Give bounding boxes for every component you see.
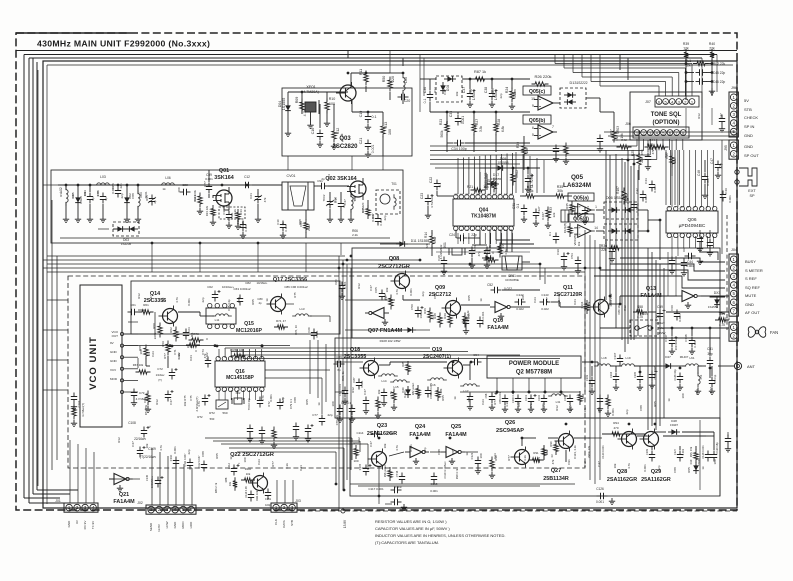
wire vgroup2 c [594,240,596,484]
svg-text:100: 100 [479,453,483,458]
svg-text:R45: R45 [565,203,569,209]
svg-text:0.001: 0.001 [686,264,694,268]
svg-text:C23: C23 [481,399,485,405]
svg-text:C24: C24 [449,233,455,237]
svg-text:GND: GND [110,359,118,363]
crystal XF01 [305,102,316,112]
trimmer RT2 560 [216,400,228,409]
svg-text:22p: 22p [187,449,191,454]
wire [43,184,51,186]
svg-text:AF OUT: AF OUT [745,310,760,315]
svg-text:D10: D10 [485,248,491,252]
capacitor C100 cluster under PM 3 [515,395,521,406]
svg-text:D13: D13 [570,81,577,85]
svg-text:R49: R49 [443,313,447,319]
wire [69,496,71,503]
inductor L17 [460,384,480,386]
resistor R49 3k [448,313,452,328]
svg-text:R75: R75 [183,395,187,401]
svg-text:R65: R65 [241,221,245,227]
wire [600,111,614,113]
IC Q06 uPD4094BC [666,211,718,233]
wire j02 up [151,448,153,505]
svg-text:9V: 9V [75,520,79,524]
wire [431,230,433,234]
svg-text:C47: C47 [443,89,447,95]
svg-text:0.001: 0.001 [678,314,682,322]
svg-text:L31: L31 [556,400,561,404]
diode D02 [124,194,130,206]
resistor R23 560k [445,121,449,136]
svg-text:10k: 10k [385,287,389,292]
resistor R48 9k [438,313,442,328]
svg-text:C143: C143 [541,293,549,297]
svg-text:3SK164: 3SK164 [214,175,233,181]
svg-text:100: 100 [521,295,525,300]
capacitor C24 22p [457,235,468,241]
trimmer la [255,193,261,204]
svg-text:560: 560 [222,411,227,415]
svg-text:VR02: VR02 [515,170,519,178]
wire [721,140,723,254]
wire vgroup2 a [584,230,586,392]
connector J95 [729,140,738,159]
svg-text:220: 220 [391,76,395,82]
capacitor cluster right2 [707,239,713,250]
svg-text:1k: 1k [667,398,671,402]
wire Q16 bot pins dn [218,390,220,400]
svg-text:C109: C109 [645,448,649,455]
svg-text:C91: C91 [567,459,571,465]
svg-text:C80: C80 [334,279,338,285]
wire [124,333,155,335]
svg-text:Q23: Q23 [377,423,388,429]
diode pair D06b [604,224,638,240]
connector J07 pins [655,96,699,107]
svg-text:C88: C88 [131,193,135,199]
ceramic filter CF01 CFW455E [502,256,522,270]
svg-text:100: 100 [467,397,471,402]
IC Q16 MC145158P [215,361,265,387]
wire [58,184,250,186]
wire [652,431,666,433]
wire bundle mid 1 [47,255,345,257]
svg-text:1S997: 1S997 [697,458,701,466]
wire [287,156,289,170]
wire pm pins [496,378,498,392]
wire [600,327,630,329]
svg-text:0.001: 0.001 [491,88,495,96]
box PLL dashed [68,276,585,468]
svg-text:R42: R42 [621,138,627,142]
svg-text:0.001: 0.001 [693,340,697,347]
wire hrow6 [430,451,441,453]
capacitor C10 0.001 [280,221,286,232]
svg-text:33: 33 [550,454,554,458]
capacitor cluster bottomright [725,435,731,446]
op-amp Q05(d) [568,214,594,222]
svg-text:Q09: Q09 [435,285,445,291]
svg-text:R65: R65 [251,299,255,305]
svg-text:22p: 22p [423,447,427,452]
connector J03 [271,503,297,512]
svg-text:3.3k: 3.3k [557,299,561,305]
resistor R08 2.2k [304,219,308,233]
capacitor C99 cluster under PM 2 [502,395,508,406]
crystal X01 4.7/25WHz [452,248,462,255]
resistor R14 220 [430,233,434,248]
wire [389,51,391,74]
svg-text:100: 100 [331,401,335,406]
wire [402,295,404,300]
svg-text:10k: 10k [228,481,232,486]
svg-text:3.3k: 3.3k [615,135,619,141]
svg-text:21: 21 [460,193,464,197]
resistor R30 10k [522,143,526,158]
svg-text:47k: 47k [529,403,533,408]
capacitor C115 [363,465,369,476]
svg-text:R87 1k: R87 1k [474,70,486,74]
capacitor C23 4.7/25wv [425,195,431,206]
svg-text:CV01: CV01 [287,174,296,178]
filter CV01 [282,182,314,210]
svg-text:R60: R60 [152,323,156,329]
transistor Q22 [249,473,268,494]
svg-text:0.001: 0.001 [409,444,413,452]
svg-text:POWER MODULE: POWER MODULE [509,361,559,367]
svg-text:0.1: 0.1 [516,204,520,209]
resistor R69 [166,341,170,356]
svg-text:R12: R12 [697,113,701,119]
wire vertical from regulator to Q04 [479,172,481,190]
capacitor C105 [637,373,643,384]
svg-text:FA1A4M: FA1A4M [113,499,135,505]
svg-text:LA6324M: LA6324M [563,182,591,189]
transistor Q11 2SC2712GR [590,297,609,318]
wire bus bottom 4 [37,489,78,491]
svg-text:C40: C40 [604,241,608,247]
svg-text:4.7/25wv: 4.7/25wv [430,196,434,209]
wire [390,72,403,74]
capacitor C19 0.1 [365,113,371,124]
resistor R46 82k [428,308,432,323]
svg-text:430MHz MAIN UNIT F2992000 (No.: 430MHz MAIN UNIT F2992000 (No.3xxx) [37,39,210,49]
svg-text:C76: C76 [261,395,265,401]
svg-text:47k: 47k [587,301,591,306]
svg-text:J96: J96 [731,86,737,90]
svg-text:C123, 3.3k: C123, 3.3k [573,445,577,459]
svg-text:0.001: 0.001 [681,448,685,455]
resistor R24 4.7k [510,88,514,103]
box middle section [352,248,720,338]
svg-text:XF01: XF01 [306,84,316,89]
wire hrow5 [237,451,336,453]
svg-text:C82: C82 [245,281,251,285]
svg-text:9: 9 [532,104,534,108]
wire [335,361,363,363]
wire vgroup2 b [589,235,591,480]
diode D01 HS08 [75,194,81,206]
svg-text:Q27: Q27 [551,468,562,474]
capacitor C103b [589,377,595,388]
capacitor C104 [613,373,619,384]
svg-text:0.01: 0.01 [299,465,303,471]
capacitor C42 0.001 [640,191,646,202]
svg-text:4.7k: 4.7k [627,463,631,469]
wire hrow1 [205,437,352,439]
svg-text:0.1: 0.1 [372,115,377,119]
wire fan vertical 7 [655,260,657,430]
svg-text:Q22 2SC2712GR: Q22 2SC2712GR [230,452,274,458]
svg-text:TONE SQL: TONE SQL [651,112,682,118]
svg-text:J01: J01 [55,499,61,503]
wire fan vertical 1 [605,150,607,300]
svg-text:C23: C23 [193,195,197,201]
wire [286,303,294,305]
svg-text:C48: C48 [697,170,701,176]
capacitor C47 22p [715,161,721,172]
svg-text:10k: 10k [613,463,617,468]
transistor Q26 [511,447,530,468]
svg-text:C88: C88 [201,451,205,457]
wire bus left 2 [28,58,30,503]
svg-text:22p: 22p [625,409,629,414]
svg-text:22p: 22p [120,193,124,198]
svg-text:0.022: 0.022 [516,307,524,311]
capacitor C33 4.7/25wv [525,175,531,186]
wire cluster [539,264,541,280]
svg-text:C88: C88 [639,405,643,411]
svg-text:C112: C112 [227,462,231,469]
svg-text:R71 15k: R71 15k [144,404,148,415]
svg-text:R77: R77 [203,181,207,187]
capacitor C64 0.001 [183,329,189,340]
svg-text:100: 100 [177,187,181,192]
svg-text:10k: 10k [183,401,187,406]
svg-text:Q13: Q13 [646,286,656,292]
wire J07 pin wires [658,86,660,96]
svg-text:RESISTOR VALUES ARE IN Ω, 1/10: RESISTOR VALUES ARE IN Ω, 1/10W ) [375,519,447,524]
svg-text:10k: 10k [83,191,87,196]
svg-text:C20: C20 [404,99,411,103]
op-amp Q05(c) [523,86,551,95]
capacitor cluster B1 [131,389,137,400]
svg-text:R33 22k: R33 22k [205,205,209,216]
connector J02 [146,505,196,514]
wire [711,88,713,96]
svg-text:0.01: 0.01 [637,153,641,159]
capacitor C05 [379,290,385,301]
svg-text:R11: R11 [359,69,363,75]
svg-text:25A1162GR: 25A1162GR [641,477,671,483]
svg-text:0.022: 0.022 [541,307,549,311]
diode D08 1S2222 [440,82,446,94]
resistor R87 1k [472,77,488,81]
svg-text:C91: C91 [665,153,669,159]
svg-text:12: 12 [509,193,513,197]
svg-text:MUTE: MUTE [745,293,757,298]
svg-text:22p: 22p [421,291,425,296]
svg-text:R93: R93 [581,393,585,398]
wire bus bottom 3 [33,493,70,495]
resistor R32 9.3k [523,194,538,198]
svg-text:1000/10wv: 1000/10wv [151,475,154,488]
wire [709,328,711,356]
wire [460,391,580,393]
capacitor C12 [242,182,253,188]
svg-text:C117 0.001: C117 0.001 [368,487,384,491]
svg-text:14: 14 [498,193,502,197]
wire long RF bottom [60,237,390,239]
capacitor C61 [128,309,139,315]
svg-text:R74, 47: R74, 47 [276,319,286,323]
svg-text:4.7k: 4.7k [469,89,473,95]
svg-text:Q17 2SC3356: Q17 2SC3356 [273,277,307,283]
capacitor C92 [425,387,431,398]
svg-text:C80 18: C80 18 [617,305,621,314]
capacitor cluster vco1 [71,393,77,404]
svg-text:C119 4.7/25wv: C119 4.7/25wv [443,461,447,479]
diode D07 [444,76,456,82]
capacitor cluster right of Q16 [337,405,343,416]
svg-text:0.001: 0.001 [644,195,648,203]
resistor R56 8.2k [463,313,467,328]
svg-text:C110: C110 [169,454,173,461]
svg-text:R23: R23 [439,119,443,125]
svg-text:0.01: 0.01 [249,193,253,199]
resistor R93 cluster [578,391,582,405]
wire [685,96,687,100]
wire stub top qo3 [347,51,349,59]
box power row [335,338,720,418]
svg-text:3.3k: 3.3k [233,209,237,215]
svg-text:L14: L14 [381,379,386,383]
content frame inner line [47,64,733,66]
inverter Q24 FA1A4M [405,447,429,458]
svg-text:INDUCTOR VALUES ARE IN HENRIES: INDUCTOR VALUES ARE IN HENRIES, UNLESS O… [375,533,505,538]
svg-text:M1407: M1407 [680,355,689,359]
capacitor C102 cluster under PM 5 [541,395,547,406]
svg-text:2SC945AP: 2SC945AP [496,428,524,434]
svg-text:L06: L06 [165,176,171,180]
wire [496,239,530,241]
wire [65,184,68,187]
svg-text:2.2k: 2.2k [352,233,358,237]
svg-text:Q05(a): Q05(a) [573,196,589,202]
resistor R36 cluster [670,153,674,168]
inductor L11 [212,314,232,316]
svg-text:Vs: Vs [710,54,714,58]
svg-text:1/2W: 1/2W [658,331,665,335]
svg-text:0.001: 0.001 [269,394,273,402]
inverter Q07 FN1A4M [365,308,389,319]
capacitor C48 0.001 [702,173,708,184]
resistor R44 10k [645,145,660,149]
svg-text:Q24: Q24 [415,424,426,430]
svg-text:0.001: 0.001 [360,380,364,387]
svg-text:FA1A4M: FA1A4M [409,432,431,438]
diode D47 M1407 [662,363,674,369]
svg-text:+: + [238,461,240,465]
svg-text:20: 20 [465,193,469,197]
svg-text:T01: T01 [391,182,397,186]
wire fan vertical 2 [615,154,617,328]
svg-text:FA1A4M: FA1A4M [487,325,509,331]
wire [647,140,649,152]
svg-text:VCV: VCV [110,368,116,372]
svg-text:C127: C127 [673,448,677,455]
wire Q06 top pins [671,150,673,207]
svg-text:R21: R21 [467,185,473,189]
svg-text:0.001: 0.001 [403,390,407,398]
wire left inner [46,65,48,504]
trimmer TC01 [149,195,155,206]
svg-text:R65: R65 [145,195,149,201]
IC Q15 MC12016P [206,308,236,324]
svg-text:C36: C36 [423,87,427,93]
svg-text:7: 7 [552,125,554,129]
svg-text:100: 100 [713,459,717,464]
svg-text:R77: R77 [609,129,613,135]
capacitor cluster Q18 [381,389,387,400]
svg-text:C72: C72 [157,367,163,371]
svg-text:R12: R12 [155,399,159,405]
svg-text:3.3k: 3.3k [523,455,527,461]
svg-text:22p: 22p [281,397,285,402]
svg-text:Q05: Q05 [571,174,584,181]
svg-text:R187: R187 [616,186,620,194]
capacitor C16 [317,130,323,141]
box regulator dashed [436,76,462,102]
resistor R68 10k [144,345,148,360]
svg-text:R13: R13 [384,122,388,129]
capacitor C147 30C/16wv [669,337,675,348]
svg-text:TC03 30p: TC03 30p [247,397,251,410]
svg-text:C53: C53 [570,253,574,259]
svg-text:R46: R46 [423,308,427,314]
capacitor C22 0.1 [434,180,440,191]
svg-text:22p: 22p [657,465,661,470]
capacitor C36 0.1 [427,91,433,102]
svg-text:C38: C38 [484,87,488,93]
svg-text:R76, 10: R76, 10 [294,325,298,335]
svg-text:C126: C126 [596,487,604,491]
svg-text:30k: 30k [557,189,563,193]
svg-text:Q26: Q26 [505,420,516,426]
svg-text:RX 9V: RX 9V [83,521,87,530]
svg-text:R77: R77 [493,399,497,405]
inductor L18 [594,364,614,366]
wire [685,108,687,132]
capacitor C46 22p [696,78,707,84]
svg-text:C47: C47 [363,389,367,395]
title underline [16,50,737,52]
capacitor cluster Q19b [467,393,473,404]
svg-text:100: 100 [388,129,392,135]
svg-text:1k: 1k [281,222,285,226]
svg-text:C86 C96 0.001s2: C86 C96 0.001s2 [284,285,308,289]
capacitor C94 veract [471,359,482,365]
svg-text:C103: C103 [77,400,81,407]
resistor R13 100 [381,123,385,138]
svg-text:C99 0.001: C99 0.001 [499,392,502,404]
svg-text:R108 102 1/8W: R108 102 1/8W [380,339,401,343]
wire [265,369,330,371]
diode block D13 dashed [560,88,586,108]
crystal X02 [234,398,242,404]
varistor VR03 10k [612,128,616,143]
svg-text:0.001: 0.001 [653,185,657,193]
